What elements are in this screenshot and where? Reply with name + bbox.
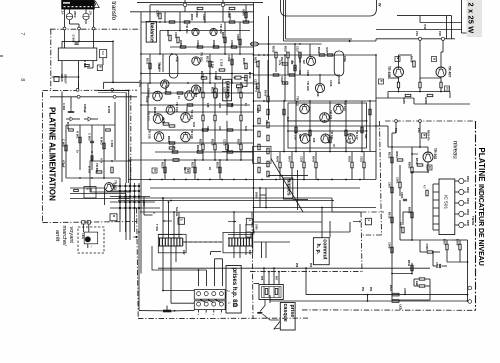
- svg-text:D504: D504: [466, 209, 469, 215]
- long wire pair lower: [183, 241, 222, 243]
- left rail bottom wires: [118, 197, 332, 199]
- svg-text:R513: R513: [388, 152, 392, 159]
- svg-text:R347: R347: [288, 156, 292, 163]
- svg-text:R322: R322: [196, 145, 200, 152]
- transformer connection wires: [162, 246, 164, 291]
- svg-text:C503: C503: [400, 192, 404, 199]
- svg-text:R323: R323: [199, 139, 203, 146]
- capacitor C601: [62, 40, 113, 42]
- svg-text:560: 560: [298, 134, 302, 139]
- alim caps/resistors cluster: [66, 124, 115, 126]
- svg-text:C501: C501: [396, 177, 400, 184]
- strip crossing wires: [200, 299, 206, 302]
- junction circles on y90 border: [76, 89, 79, 92]
- balance box: [146, 22, 156, 43]
- svg-text:C 619: C 619: [60, 74, 64, 82]
- transistor TR311: [320, 113, 330, 123]
- svg-text:R501: R501: [395, 152, 399, 159]
- right top extra parts: [257, 61, 259, 67]
- svg-text:R517: R517: [399, 222, 403, 229]
- bias sub box: [253, 146, 271, 163]
- svg-text:R515: R515: [388, 212, 392, 219]
- indicateur border left: [380, 121, 382, 235]
- commut border dashdot: [361, 211, 384, 213]
- power stage loop wires: [288, 103, 367, 148]
- dash segment to power rail: [330, 40, 376, 42]
- wires down to transformer: [143, 197, 145, 216]
- svg-text:+: +: [212, 314, 216, 316]
- svg-text:R 603: R 603: [100, 137, 104, 145]
- svg-text:1000µF: 1000µF: [83, 104, 87, 113]
- svg-text:R304: R304: [242, 9, 246, 16]
- headphone connector block: [259, 285, 283, 300]
- rail junction dots extra: [149, 179, 151, 181]
- output transistor TR407: [436, 67, 446, 77]
- left ch resistors row1: [169, 21, 175, 23]
- svg-text:TR 408: TR 408: [387, 66, 391, 77]
- svg-text:C505: C505: [425, 244, 429, 251]
- svg-text:C511: C511: [435, 262, 439, 269]
- svg-text:R519: R519: [415, 158, 419, 165]
- ground bar: [138, 232, 140, 310]
- svg-text:P07: P07: [275, 276, 277, 281]
- svg-text:R315: R315: [242, 58, 246, 65]
- alim driver sub-box: [90, 161, 131, 192]
- svg-text:R 601: R 601: [76, 131, 80, 139]
- svg-text:R301: R301: [166, 30, 170, 37]
- svg-text:220V: 220V: [112, 183, 116, 190]
- svg-text:C312: C312: [214, 71, 218, 78]
- label prise casque: [280, 303, 295, 331]
- transistor TR315: [300, 104, 310, 114]
- diagonal wire to commut: [271, 159, 303, 213]
- svg-text:P20: P20: [438, 31, 442, 36]
- right bottom cluster: [254, 187, 361, 189]
- svg-text:voyant: voyant: [68, 227, 74, 244]
- svg-text:R331: R331: [191, 162, 195, 169]
- svg-text:R311: R311: [146, 58, 150, 65]
- svg-text:PLATINE: PLATINE: [477, 148, 486, 182]
- wire bus into strips: [163, 290, 194, 292]
- svg-text:R333: R333: [216, 162, 220, 169]
- svg-text:TR 318: TR 318: [190, 129, 194, 139]
- svg-text:C313: C313: [223, 139, 227, 146]
- right edge wire: [461, 0, 463, 33]
- svg-text:33k: 33k: [364, 134, 368, 139]
- speaker strip upper: [194, 290, 225, 300]
- svg-text:C317: C317: [296, 46, 300, 53]
- svg-text:47µ: 47µ: [175, 57, 179, 62]
- transformer secondary wires: [61, 61, 63, 77]
- svg-text:47k: 47k: [218, 126, 222, 131]
- svg-text:R529 47k: R529 47k: [427, 130, 430, 141]
- LED labels: [464, 180, 467, 182]
- svg-text:TR 407: TR 407: [448, 66, 452, 77]
- electrolytic C307: [169, 54, 178, 78]
- svg-text:0.47: 0.47: [348, 138, 352, 144]
- svg-text:R343: R343: [264, 90, 268, 97]
- transistor TR305: [306, 56, 315, 65]
- transistor TR306: [192, 85, 201, 94]
- svg-text:TR 312: TR 312: [147, 111, 151, 121]
- svg-text:R345: R345: [276, 156, 280, 163]
- transistor TR313: [334, 104, 344, 114]
- svg-text:R 324: R 324: [211, 61, 215, 69]
- label prises hp: [226, 266, 241, 314]
- svg-text:0.01: 0.01: [192, 122, 196, 128]
- LED D501: [459, 178, 464, 183]
- svg-text:R320: R320: [167, 136, 171, 143]
- wire to transformer primary: [64, 30, 66, 48]
- svg-text:0.22: 0.22: [256, 108, 260, 114]
- right ch mid verticals: [283, 101, 285, 152]
- boxed pin labels output stage: [395, 57, 400, 62]
- svg-text:R303: R303: [190, 14, 194, 21]
- alim transistor TR601: [105, 183, 114, 192]
- wires to commut: [321, 208, 323, 238]
- transistor TR304: [161, 80, 169, 88]
- long bottom wires: [158, 267, 430, 269]
- svg-text:R302: R302: [195, 11, 199, 18]
- transformer primary box: [58, 48, 97, 61]
- svg-text:8.2k: 8.2k: [244, 126, 248, 132]
- indicator lower parts: [412, 239, 452, 241]
- svg-text:C319: C319: [300, 156, 304, 163]
- transistor TR316: [154, 132, 164, 142]
- right ch small parts column: [258, 92, 260, 98]
- svg-text:R317: R317: [199, 87, 203, 94]
- transistor TR309: [315, 83, 324, 92]
- amp block left border: [130, 95, 132, 180]
- svg-text:16V: 16V: [182, 250, 186, 255]
- svg-text:A7805: A7805: [403, 288, 406, 296]
- svg-text:S: S: [86, 188, 90, 190]
- svg-text:2 x 25 W: 2 x 25 W: [467, 3, 476, 34]
- left channel top wires: [150, 4, 254, 6]
- left ch mid resistors: [202, 92, 204, 98]
- junction dots scattered: [164, 21, 166, 23]
- voyant dashed box: [78, 227, 104, 253]
- svg-text:prises h.p. 8Ω: prises h.p. 8Ω: [231, 268, 237, 308]
- transistor TR303: [192, 57, 200, 65]
- fuse F601 wire: [64, 9, 66, 28]
- left output coupling: [173, 159, 179, 162]
- svg-text:TR 301: TR 301: [185, 24, 189, 34]
- ground symbol: [70, 108, 72, 112]
- transistor TR502: [423, 152, 433, 162]
- svg-text:4.7: 4.7: [423, 185, 427, 189]
- svg-text:R316: R316: [164, 86, 168, 93]
- speaker strip lower: [194, 301, 225, 310]
- zener D608: [91, 156, 93, 161]
- connector pins on border: [82, 221, 85, 224]
- wire lower-left: [52, 76, 79, 78]
- svg-text:47k: 47k: [290, 60, 294, 65]
- casque box pointer: [274, 321, 280, 329]
- mains wire bundle verticals: [119, 183, 121, 232]
- svg-text:100: 100: [206, 103, 210, 108]
- svg-text:22k: 22k: [265, 120, 269, 125]
- svg-text:8: 8: [19, 78, 25, 81]
- wire right rail x113: [112, 41, 114, 82]
- svg-text:R455: R455: [402, 98, 406, 105]
- svg-text:TR 321: TR 321: [330, 130, 334, 140]
- svg-text:C305: C305: [202, 14, 206, 21]
- arrow right side: [411, 153, 418, 155]
- svg-text:C310: C310: [145, 96, 149, 103]
- svg-text:C301: C301: [174, 32, 178, 39]
- mains black terminal block: [62, 0, 95, 9]
- fuse F601: [66, 13, 72, 19]
- svg-text:P02: P02: [369, 287, 371, 292]
- indicateur border bottom long: [138, 317, 308, 320]
- svg-text:R456: R456: [424, 98, 428, 105]
- IC pins left: [433, 183, 439, 185]
- transistor TR318: [181, 132, 191, 142]
- zener left of IC: [426, 190, 428, 196]
- indicateur border dash-dot top: [385, 120, 475, 122]
- transistor TR312: [153, 114, 163, 124]
- fusible arrow right: [353, 221, 361, 223]
- svg-text:R349: R349: [312, 156, 316, 163]
- right lower resistors: [279, 162, 281, 168]
- fusible arrows: [163, 220, 172, 222]
- alim diode bridge: [70, 117, 73, 121]
- wire bundle to bottom connectors: [261, 242, 263, 258]
- svg-text:P08: P08: [295, 263, 297, 268]
- svg-text:C 604: C 604: [62, 103, 66, 111]
- transformer core dashes: [184, 241, 222, 243]
- graves adjacent parts: [235, 76, 241, 79]
- svg-text:P19: P19: [415, 31, 419, 36]
- transistor TR310: [166, 106, 175, 115]
- amp channel divider rail: [253, 3, 255, 232]
- indicator input wires: [387, 126, 389, 147]
- svg-text:-: -: [219, 314, 223, 315]
- alim wires to mains bundle: [119, 178, 121, 220]
- svg-text:10k: 10k: [185, 107, 189, 112]
- svg-text:casque: casque: [282, 304, 288, 322]
- svg-text:arrêt: arrêt: [54, 230, 60, 242]
- border junction dot: [135, 236, 137, 238]
- svg-text:R339: R339: [317, 47, 321, 54]
- right resistors top: [275, 52, 277, 58]
- svg-text:D502: D502: [466, 187, 469, 193]
- svg-text:C507: C507: [388, 182, 392, 189]
- supply wires to right edge: [420, 22, 462, 24]
- svg-text:C308: C308: [230, 40, 234, 47]
- voyant lamp: [85, 237, 90, 242]
- bus from amp to bottom: [140, 201, 142, 274]
- LED D503: [459, 200, 464, 205]
- alim wire y97: [50, 96, 137, 98]
- component C619: [54, 77, 59, 82]
- transistor TR308: [153, 91, 163, 101]
- svg-text:TSF501: TSF501: [471, 216, 475, 226]
- wire left into connector: [254, 283, 260, 285]
- svg-text:470µF: 470µF: [62, 160, 66, 168]
- boxed label left: [110, 214, 117, 221]
- svg-text:R335: R335: [272, 46, 276, 53]
- svg-text:C 316: C 316: [220, 59, 224, 67]
- svg-text:commut: commut: [322, 239, 328, 259]
- boxed test labels: [152, 168, 157, 173]
- svg-text:T 601: T 601: [155, 224, 159, 232]
- svg-text:-: -: [204, 314, 208, 315]
- svg-text:R371: R371: [254, 57, 258, 64]
- left margin tick: [0, 55, 3, 57]
- svg-text:C n: C n: [101, 51, 104, 55]
- svg-text:R459: R459: [410, 56, 414, 63]
- svg-text:C316: C316: [329, 80, 333, 87]
- svg-text:P06: P06: [309, 263, 311, 268]
- svg-text:B: B: [112, 215, 116, 217]
- svg-text:R351: R351: [348, 156, 352, 163]
- indicator wire grid: [411, 147, 413, 160]
- transistor TR302: [210, 28, 217, 35]
- transistor TR319: [300, 134, 310, 144]
- svg-text:P01: P01: [361, 287, 363, 292]
- svg-text:56k: 56k: [230, 103, 234, 108]
- transistor TR301: [192, 28, 199, 35]
- svg-text:2.2k: 2.2k: [218, 103, 222, 109]
- left mid wires: [141, 82, 254, 84]
- svg-text:D503: D503: [466, 198, 469, 204]
- svg-text:W: W: [378, 3, 382, 7]
- supply pair down from alim: [98, 90, 129, 92]
- LED D502: [459, 189, 464, 194]
- aigues box: [284, 178, 293, 199]
- transformer T601 windings right: [228, 238, 230, 246]
- svg-text:C 608: C 608: [62, 139, 66, 147]
- left ch vertical wires mid: [202, 83, 204, 92]
- svg-text:R310: R310: [200, 71, 204, 78]
- right mid rails: [254, 100, 377, 102]
- svg-text:R503: R503: [408, 162, 412, 169]
- svg-text:TR 602: TR 602: [95, 163, 99, 173]
- svg-text:R507: R507: [443, 239, 447, 246]
- svg-text:4.7k: 4.7k: [162, 118, 166, 124]
- wires amp to indicator: [387, 92, 389, 99]
- left lower-mid structure: [141, 104, 250, 106]
- svg-text:C509: C509: [388, 242, 392, 249]
- wire pair down from top: [283, 0, 285, 41]
- svg-text:601: 601: [89, 188, 93, 193]
- indicator extra column parts: [391, 157, 393, 163]
- svg-text:R329: R329: [161, 162, 165, 169]
- indicator components left column: [397, 159, 403, 161]
- svg-text:R306: R306: [179, 40, 183, 47]
- svg-text:TR 316: TR 316: [148, 129, 152, 139]
- switch S601: [84, 187, 96, 199]
- svg-text:R314: R314: [248, 72, 252, 79]
- svg-text:330: 330: [206, 126, 210, 131]
- fusible arrow mid: [228, 221, 236, 223]
- svg-text:prise: prise: [289, 305, 295, 318]
- svg-text:47k: 47k: [298, 70, 302, 75]
- polarity marks: [198, 310, 200, 313]
- svg-text:D501: D501: [466, 176, 469, 182]
- transistor TR317: [346, 134, 356, 144]
- svg-text:C304: C304: [156, 10, 160, 17]
- svg-text:250V: 250V: [73, 11, 77, 18]
- LED D504: [459, 211, 464, 216]
- supply rail to right: [375, 55, 377, 180]
- transistor TR321: [321, 134, 330, 143]
- warning triangle: [92, 1, 100, 7]
- svg-text:LED: LED: [399, 305, 403, 310]
- svg-text:transfo: transfo: [110, 1, 117, 20]
- wires above strips: [198, 270, 200, 286]
- graves box: [223, 79, 232, 101]
- diode D604: [85, 65, 90, 67]
- fuse F602: [83, 13, 89, 19]
- svg-text:R308: R308: [212, 40, 216, 47]
- svg-text:TR 303: TR 303: [200, 52, 204, 62]
- transformer outer box left: [158, 234, 186, 253]
- IC501 box: [439, 179, 455, 235]
- long feedback wire: [254, 231, 351, 233]
- svg-text:TR 314: TR 314: [190, 110, 194, 120]
- svg-text:C303: C303: [236, 34, 240, 41]
- svg-text:TR 317: TR 317: [355, 130, 359, 140]
- svg-text:2: 2: [226, 290, 230, 292]
- svg-text:1000: 1000: [255, 224, 258, 230]
- transistor TR307: [185, 91, 195, 101]
- svg-text:R325: R325: [211, 139, 215, 146]
- svg-text:220: 220: [316, 92, 320, 97]
- svg-text:100: 100: [312, 138, 316, 143]
- svg-text:marche/: marche/: [61, 226, 67, 247]
- svg-text:R341: R341: [255, 86, 259, 93]
- transformer T601 windings left: [159, 238, 161, 246]
- svg-text:M: M: [380, 80, 382, 82]
- svg-text:C306: C306: [196, 40, 200, 47]
- svg-text:C333: C333: [280, 76, 284, 83]
- svg-text:C307: C307: [157, 63, 161, 70]
- commut hp box: [313, 238, 329, 265]
- svg-text:D 604: D 604: [83, 60, 87, 68]
- svg-text:D505: D505: [466, 220, 469, 226]
- LED D505: [459, 222, 464, 227]
- svg-text:R327: R327: [237, 139, 241, 146]
- gray band behind power label: [467, 0, 483, 37]
- voyant lamp inner loop: [84, 232, 98, 244]
- alim rail left: [61, 92, 63, 183]
- svg-text:100µ: 100µ: [343, 56, 347, 62]
- wires bottom of indicator: [392, 273, 412, 275]
- transformer outer box right: [223, 232, 253, 252]
- svg-text:balance: balance: [149, 23, 155, 42]
- headphone jack symbol: [260, 300, 265, 312]
- svg-text:+: +: [196, 314, 200, 316]
- svg-text:h. p.: h. p.: [315, 244, 321, 255]
- aux small box upper: [100, 50, 107, 58]
- svg-text:R505: R505: [408, 207, 412, 214]
- svg-text:R305: R305: [221, 32, 225, 39]
- svg-text:INDICATEUR DE NIVEAU: INDICATEUR DE NIVEAU: [477, 184, 484, 266]
- svg-text:TR 310: TR 310: [175, 102, 179, 112]
- svg-text:C331: C331: [254, 79, 258, 86]
- svg-text:16V: 16V: [248, 250, 252, 255]
- svg-text:C309: C309: [227, 55, 231, 62]
- hp wires right resistors: [392, 293, 399, 296]
- svg-text:niveau: niveau: [451, 141, 457, 159]
- svg-text:SMOOT: SMOOT: [64, 74, 68, 84]
- svg-text:C 606: C 606: [110, 140, 114, 148]
- svg-text:R377: R377: [325, 48, 329, 55]
- svg-text:R 605: R 605: [66, 122, 70, 130]
